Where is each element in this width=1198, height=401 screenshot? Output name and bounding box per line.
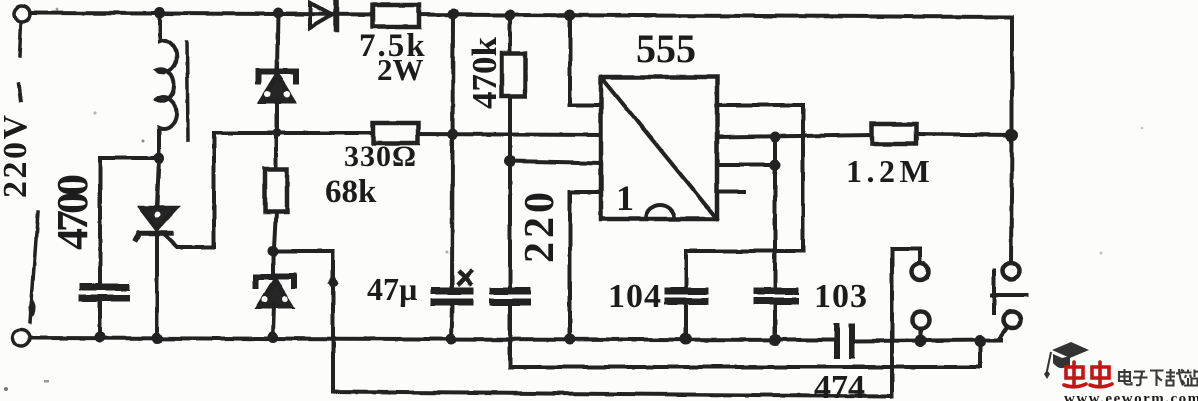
wire bottom-left lead: [30, 212, 38, 322]
wire right rail down to 1.2M node: [1010, 17, 1014, 135]
svg-text:103: 103: [814, 278, 868, 315]
wire 555 bottom-left pin to bottom rail: [570, 192, 601, 339]
wire SCR cathode to bottom rail: [155, 234, 159, 337]
wire capacitor 103 to bottom rail: [773, 305, 777, 339]
wire S2 bottom to node: [999, 329, 1006, 339]
svg-text:470k: 470k: [465, 37, 504, 110]
node I junction x=510 y=161: [504, 155, 516, 167]
svg-text:555: 555: [636, 26, 696, 71]
arrow mark on drop wire: [328, 272, 338, 290]
wire top rail: [30, 13, 1012, 17]
wire zener D2 to node D: [275, 101, 279, 133]
wire main horizontal 133 net: [277, 133, 601, 135]
resistor 68k: [274, 133, 278, 169]
capacitor 4700: [83, 287, 126, 298]
junction dot 47u/bottom: [446, 334, 457, 345]
svg-text:330Ω: 330Ω: [344, 140, 417, 173]
junction dot 104/bottom: [680, 333, 692, 345]
junction dot 4700/bottom: [95, 332, 106, 343]
svg-text:220: 220: [517, 188, 563, 263]
resistor 1.2M: [872, 124, 916, 144]
node K dots x=775: [770, 132, 781, 143]
node C top rail / zener column: [273, 8, 284, 19]
wire node K down to capacitor 103: [773, 137, 777, 287]
switch S2 right: [1003, 263, 1020, 280]
wire 555 pin to node K: [717, 163, 775, 167]
svg-text:www.eeworm.com: www.eeworm.com: [1064, 391, 1198, 401]
wire node J to 555 top-left pin: [570, 15, 601, 105]
wire capacitor 104 to bottom rail: [684, 305, 688, 338]
wire node E to switch net (left drop): [273, 251, 892, 396]
resistor 7.5k 2W: [373, 5, 419, 27]
capacitor 104: [668, 291, 705, 301]
watermark text chongchong red: [1064, 362, 1112, 387]
svg-text:1.2M: 1.2M: [846, 153, 934, 189]
notch semicircle on 555 bottom: [646, 205, 674, 219]
junction dot D3/bottom: [268, 332, 279, 343]
thyristor SCR anode wire: [157, 158, 159, 206]
junction dot S1/bottom: [915, 335, 927, 347]
wire 555 pin to 1.2M: [717, 135, 872, 137]
bottom rail: [30, 338, 1001, 341]
wire capacitor 220 to lower rail 2: [510, 306, 980, 367]
wire zener D3 to bottom rail: [273, 303, 274, 337]
wire 555 output pin to cap 104: [686, 105, 803, 287]
capacitor 220: [493, 291, 527, 302]
node J top rail x=570: [565, 10, 576, 21]
watermark text dianzi xiazaizhan: [1119, 369, 1198, 386]
junction dot x=570 bottom: [565, 334, 576, 345]
thyristor SCR: [141, 208, 176, 229]
diode D1 top: [310, 3, 332, 28]
svg-text:474: 474: [814, 369, 865, 401]
wire node B to capacitor 4700: [100, 158, 159, 284]
wire node L down to switch S2: [1011, 135, 1012, 262]
wire 470k down to capacitor 220: [508, 96, 512, 287]
svg-text:68k: 68k: [325, 174, 377, 210]
plus mark of 47u: [459, 272, 471, 284]
node B inductor bottom junction: [154, 153, 165, 164]
svg-text:4700: 4700: [48, 175, 97, 250]
wire node I to 555 pin: [510, 161, 601, 163]
junction dot 103/bottom: [769, 334, 781, 346]
zener diode D2: [258, 72, 296, 82]
wire node F vertical to 47u: [452, 14, 453, 287]
svg-text:47µ: 47µ: [367, 271, 417, 307]
wire 47u to bottom rail: [451, 306, 452, 338]
resistor 330ohm: [373, 123, 418, 143]
node F top rail x=453: [448, 9, 459, 20]
wire 555 pin stub: [717, 190, 744, 194]
capacitor 47u electrolytic: [434, 291, 470, 302]
inductor L1: [156, 13, 177, 156]
node L junction right rail: [1006, 129, 1019, 142]
capacitor 103: [757, 291, 795, 301]
op-amp 555 timer U1 box: [601, 77, 717, 219]
node H top rail x=510: [505, 10, 516, 21]
wire top-left lead: [19, 23, 21, 100]
zener diode D3: [271, 252, 275, 275]
terminal top-left 220V input: [14, 6, 30, 22]
svg-text:104: 104: [608, 278, 662, 315]
svg-text:2W: 2W: [377, 52, 424, 87]
switch S2 actuator: [992, 271, 1026, 313]
node E below 68k: [268, 246, 279, 257]
capacitor 474 series: [837, 326, 852, 356]
resistor 470k: [508, 15, 512, 54]
terminal bottom-left: [13, 330, 30, 347]
svg-text:220V: 220V: [0, 112, 34, 198]
junction dot rail2/bottom: [974, 335, 986, 347]
thyristor gate wire: [164, 133, 277, 247]
svg-text:1: 1: [616, 178, 634, 218]
switch S1 left: [892, 249, 920, 397]
wire node C down to zener D2: [277, 13, 278, 70]
node A top of inductor: [155, 8, 166, 19]
watermark logo graduation cap: [1044, 342, 1089, 379]
junction dot SCR/bottom: [152, 333, 163, 344]
node G crossing dot x=453 y=134: [448, 129, 459, 140]
wire capacitor 4700 to bottom rail: [98, 302, 102, 337]
node D gate net junction: [273, 129, 282, 138]
wire 1.2M to node L: [916, 134, 1012, 135]
inductor core bar: [187, 42, 188, 140]
